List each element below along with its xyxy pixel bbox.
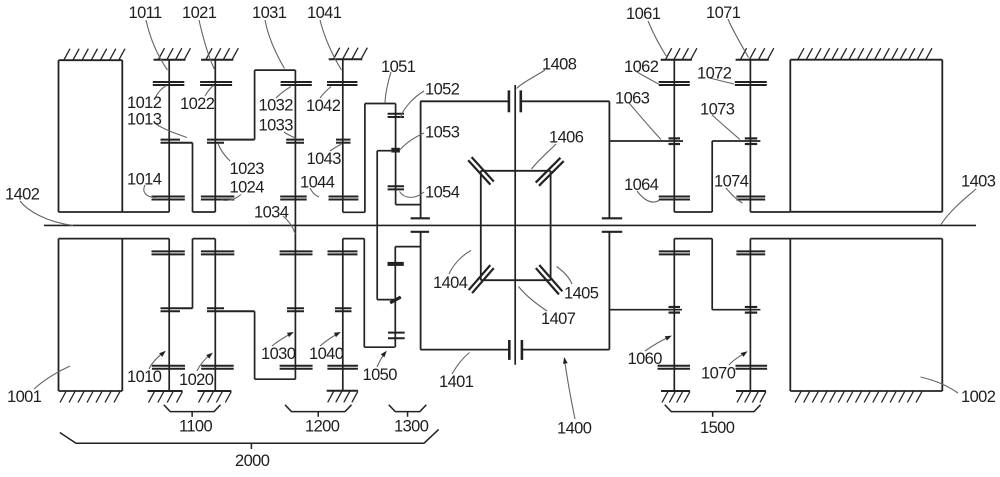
lower gear row A on shaft 1060 [658, 365, 691, 367]
leader 1402 [20, 201, 73, 225]
svg-text:1073: 1073 [700, 100, 735, 118]
ground hatch shaft 1061 top [661, 59, 692, 61]
shaft 1040 lower vertical [342, 239, 344, 391]
lower small gear ticks on shaft 1070 [745, 306, 757, 308]
leader 1073 [712, 115, 740, 140]
gear 1054 on countershaft 1051 [388, 185, 404, 187]
svg-text:1001: 1001 [7, 388, 42, 406]
wire: differential to gear 1063 [609, 140, 683, 142]
housing block upper-right [790, 59, 942, 61]
leader 1052 [401, 91, 425, 118]
leader 1013 [156, 124, 187, 138]
gear 1074 on shaft 1071 [736, 196, 765, 198]
ground hatch shaft 1020 bottom [198, 390, 232, 392]
gear 1010 on shaft 1010 [152, 365, 185, 367]
leader 1061 [648, 21, 668, 58]
svg-text:1032: 1032 [259, 96, 294, 114]
wire: shaft 1071 to right housing block [750, 211, 790, 213]
housing block lower-right (1002) [790, 238, 942, 240]
housing block lower-left (1001) [58, 239, 60, 391]
leader 1408 [517, 70, 546, 89]
svg-text:1023: 1023 [230, 160, 265, 178]
svg-text:1044: 1044 [300, 173, 335, 191]
leader 1001 [34, 366, 70, 389]
gear 1034 on shaft 1030 [280, 196, 307, 198]
svg-text:1200: 1200 [305, 417, 340, 435]
svg-text:1040: 1040 [309, 345, 344, 363]
wire: through-shaft to bevel joint [377, 299, 395, 301]
lower small gear on shaft 1040 [335, 307, 352, 309]
ground hatch above upper-left block [64, 49, 70, 60]
leader 1032 [276, 87, 291, 99]
wire: node 1053 to through-shaft [377, 150, 391, 152]
leader 1054 [400, 192, 425, 198]
svg-text:1053: 1053 [425, 123, 460, 141]
shaft 1041 upper vertical [342, 59, 344, 212]
leader 1040 with arrow [320, 333, 339, 346]
leader 1400 with arrow [565, 360, 576, 419]
svg-text:1030: 1030 [261, 345, 296, 363]
leader 1030 with arrow [272, 333, 292, 346]
svg-text:1100: 1100 [179, 417, 213, 435]
lower gear row C on shaft 1040 [328, 250, 358, 252]
synchronizer node 1053 (filled) [391, 148, 400, 153]
wire: differential to lower gear on shaft 1060 [609, 309, 682, 311]
lower small gear on shaft 1010 [161, 307, 193, 309]
brace 1100 group [164, 405, 221, 412]
leader 1070 with arrow [729, 353, 746, 366]
svg-text:1403: 1403 [961, 172, 996, 190]
gear 1070 on shaft 1070 [736, 365, 768, 367]
gear 1072 on shaft 1071 [735, 81, 767, 83]
svg-text:1014: 1014 [127, 170, 162, 188]
svg-text:1051: 1051 [381, 58, 416, 76]
svg-text:1020: 1020 [179, 371, 214, 389]
ground hatch above upper-right block [798, 48, 804, 59]
differential housing 1401 top edge [420, 100, 508, 102]
wire: shaft 1061 bottom step to gear 1073 [674, 211, 712, 213]
svg-text:1063: 1063 [615, 89, 650, 107]
leader 1011 [146, 20, 168, 70]
gear 1020 on shaft 1020 [201, 365, 234, 367]
wire: lower step shaft 1010 to shaft 1020 [192, 239, 194, 309]
brace 1200 group [285, 405, 352, 412]
differential housing right edge [608, 101, 610, 218]
svg-text:1022: 1022 [180, 95, 215, 113]
gear 1013 on shaft 1011 (small) [161, 139, 181, 141]
leader 1407 [519, 287, 548, 312]
svg-text:1041: 1041 [307, 4, 342, 22]
wire: lower-left block top extending to shaft 1011 [59, 238, 170, 240]
gear 1044 on shaft 1041 [329, 196, 359, 198]
svg-text:1402: 1402 [5, 185, 40, 203]
leader 1062 [637, 72, 659, 84]
svg-text:1071: 1071 [706, 4, 741, 22]
countershaft 1051 vertical [395, 104, 397, 205]
ground hatch shaft 1010 bottom [148, 390, 183, 392]
leader 1064 [637, 191, 660, 202]
svg-text:1010: 1010 [127, 368, 162, 386]
svg-text:1002: 1002 [961, 388, 996, 406]
shaft 1070 lower vertical [749, 239, 751, 391]
gear 1063 ticks on shaft 1061 [669, 137, 681, 139]
shaft 1060 lower vertical [673, 239, 675, 391]
clutch 1408 plates (top) [508, 90, 511, 112]
lower small gear ticks on shaft 1060 [669, 306, 681, 308]
leader 1014 [144, 185, 156, 198]
leader 1002 [921, 377, 959, 393]
wire: step from gear 1023 up to input sleeve 1031 [254, 70, 256, 140]
lower small gear on shaft 1020 [207, 307, 224, 309]
shaft 1020 lower vertical [214, 239, 216, 391]
bevel gear 1404 tick (bottom-left) [472, 268, 494, 293]
wire: countershaft 1051 bottom to differential housing [396, 204, 421, 206]
through-shaft vertical crossing axis (1300 group) [376, 151, 378, 300]
svg-text:1300: 1300 [394, 417, 429, 435]
gear 1030 on shaft 1030 [280, 365, 313, 367]
leader 1034 [283, 216, 295, 234]
wire: shaft 1070 to lower-right housing block [750, 238, 790, 240]
svg-text:1405: 1405 [564, 284, 599, 302]
svg-text:1033: 1033 [259, 116, 294, 134]
gear 1064 on shaft 1061 [659, 196, 690, 198]
leader 1031 [265, 20, 285, 69]
gear 1014 on shaft 1011 [152, 196, 185, 198]
leader 1051 [385, 72, 391, 103]
leader 1044 [310, 188, 319, 197]
shaft 1030 input vertical (through axis, 1034) [294, 70, 296, 379]
wire: main transmission axis line (1402/1403) [44, 224, 976, 226]
bevel gear 1406 tick (top-right) [536, 158, 561, 183]
leader 1041 [320, 20, 342, 70]
svg-text:2000: 2000 [235, 452, 270, 470]
leader 1071 [728, 19, 749, 58]
shaft 1071 upper vertical [749, 60, 751, 212]
gear 1032 on shaft 1030 [281, 81, 312, 83]
svg-text:1407: 1407 [541, 310, 576, 328]
gear 1040 on shaft 1040 [327, 365, 358, 367]
shaft 1021 upper vertical [214, 60, 216, 212]
svg-text:1052: 1052 [425, 80, 460, 98]
lower gear row C on shaft 1030 [280, 250, 313, 252]
svg-text:1060: 1060 [628, 350, 663, 368]
shaft 1061 upper vertical [673, 60, 675, 212]
gear 1042 on shaft 1041 [327, 81, 358, 83]
leader 1403 [941, 189, 976, 225]
right side-gear bars at axis [602, 217, 622, 219]
leader 1404 [449, 251, 471, 275]
differential housing 1401 bottom edge [420, 349, 508, 351]
leader 1012 [155, 86, 167, 99]
leader 1021 [199, 20, 214, 69]
ground hatch shaft 1011 top [154, 59, 186, 61]
leader 1060 with arrow [645, 337, 670, 352]
wire: lower sleeve from shaft 1040 to lower countershaft [343, 238, 365, 240]
svg-text:1070: 1070 [701, 364, 736, 382]
gear 1043 on shaft 1041 (small) [336, 139, 351, 141]
leader 1042 [320, 87, 331, 99]
leader 1010 with arrow [149, 352, 164, 369]
wire: upper-left block bottom extending to shaft 1011 [59, 211, 170, 213]
ground hatch shaft 1060 bottom [661, 390, 690, 392]
ground hatch below lower-right block [795, 392, 801, 403]
leader 1053 [400, 133, 424, 150]
differential carrier inner rect [481, 170, 551, 172]
lower gear row C on shaft 1070 [736, 250, 765, 252]
svg-text:1043: 1043 [307, 150, 342, 168]
lower gear row C on shaft 1020 [201, 250, 234, 252]
dark coupling bar on lower countershaft [388, 262, 404, 266]
differential housing left edge [420, 101, 422, 218]
svg-text:1404: 1404 [433, 274, 468, 292]
lower small gear on shaft 1030 [287, 307, 304, 309]
ground hatch shaft 1040 bottom [327, 390, 358, 392]
brace 1500 group [665, 405, 761, 412]
svg-text:1042: 1042 [306, 97, 341, 115]
svg-text:1050: 1050 [363, 366, 398, 384]
gear 1073 ticks on shaft 1071 [745, 137, 757, 139]
wire: lower step from shaft 1020 small gear down to shaft 1030 bottom [254, 311, 256, 379]
shaft 1011 upper vertical [168, 60, 170, 212]
gear 1062 on shaft 1061 [659, 81, 690, 83]
lower gear row C on shaft 1060 [659, 250, 690, 252]
gear 1052 on countershaft 1051 [388, 113, 404, 115]
svg-text:1072: 1072 [697, 64, 732, 82]
leader 1406 [532, 144, 557, 169]
svg-text:1024: 1024 [230, 178, 265, 196]
ground hatch shaft 1021 top [201, 59, 233, 61]
svg-text:1074: 1074 [714, 172, 749, 190]
gear 1022 on shaft 1021 [200, 81, 232, 83]
leader 1020 with arrow [197, 354, 211, 371]
brace 1300 group [389, 405, 427, 412]
ground hatch shaft 1070 bottom [736, 390, 766, 392]
svg-text:1406: 1406 [549, 128, 584, 146]
svg-text:1061: 1061 [626, 5, 661, 23]
svg-text:1011: 1011 [129, 4, 163, 22]
svg-text:1034: 1034 [254, 203, 289, 221]
svg-text:1500: 1500 [700, 419, 735, 437]
wire: step from gear 1013 down to shaft 1021 connector [192, 143, 194, 212]
differential pinion shaft vertical (center) [514, 85, 516, 365]
gear 1023 on shaft 1021 (small) [207, 139, 255, 141]
svg-text:1031: 1031 [252, 4, 287, 22]
leader 1405 [557, 267, 573, 285]
leader 1074 [726, 188, 743, 203]
lower gear row C on shaft 1010 [152, 250, 185, 252]
housing block upper-left [59, 59, 123, 61]
svg-text:1401: 1401 [439, 373, 474, 391]
ground hatch shaft 1041 top [329, 58, 363, 60]
svg-text:1400: 1400 [557, 419, 592, 437]
svg-text:1064: 1064 [624, 176, 659, 194]
leader 1022 [205, 86, 214, 97]
gear 1012 on shaft 1011 [153, 81, 185, 83]
leader 1063 [629, 103, 661, 140]
leader 1072 [710, 78, 734, 84]
gear 1050 on lower countershaft [388, 332, 405, 334]
bevel joint tick on lower countershaft [390, 297, 401, 303]
ground hatch shaft 1071 top [736, 59, 769, 61]
wire: lower countershaft top cap to differential housing [395, 246, 420, 248]
lower countershaft vertical [394, 247, 396, 348]
leader 1050 with arrow [377, 353, 386, 368]
leader 1024 [222, 195, 242, 201]
bevel gear 1405 tick (bottom-right) [536, 268, 559, 294]
wire: sleeve from shaft 1041 to countershaft 1051 [343, 211, 365, 213]
svg-text:1062: 1062 [624, 58, 659, 76]
gear 1033 on shaft 1030 (small) [286, 139, 304, 141]
svg-text:1013: 1013 [127, 110, 162, 128]
brace 2000 group [60, 429, 439, 443]
svg-text:1021: 1021 [182, 4, 217, 22]
leader 1043 [330, 144, 342, 151]
wire: shaft 1060 top step to lower gear of shaft 1070 [674, 238, 712, 240]
left side-gear bars at axis [411, 217, 430, 219]
ground hatch below lower-left block [60, 392, 66, 403]
shaft 1010 lower vertical [168, 239, 170, 391]
gear 1024 on shaft 1021 [201, 196, 234, 198]
bevel gear 1406 tick (top-left) [468, 160, 490, 184]
leader 1401 [452, 353, 470, 375]
leader 1033 [284, 132, 296, 139]
svg-text:1054: 1054 [425, 183, 460, 201]
leader 1023 [218, 144, 230, 162]
clutch 1407-side plates (bottom) [508, 340, 511, 360]
svg-text:1012: 1012 [127, 94, 162, 112]
svg-text:1408: 1408 [542, 55, 577, 73]
